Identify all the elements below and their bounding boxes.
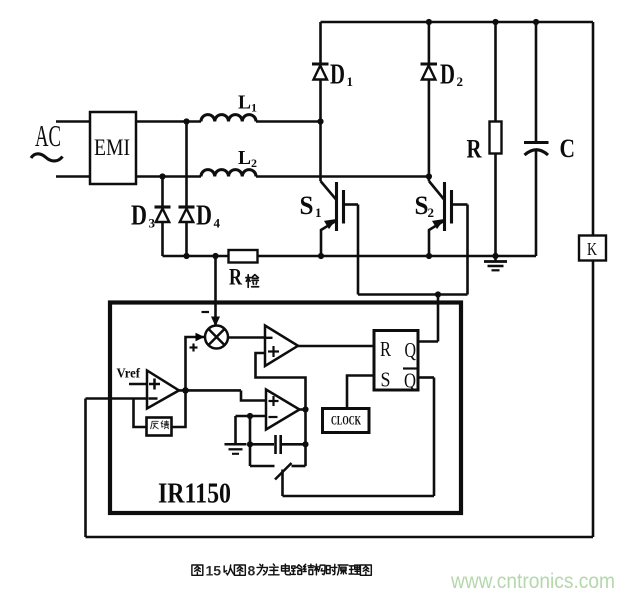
wire feedback bottom run xyxy=(86,536,594,539)
resistor R (output load) xyxy=(467,22,502,256)
svg-text:3: 3 xyxy=(149,216,156,231)
multiplier xyxy=(205,326,228,349)
svg-text:IR1150: IR1150 xyxy=(158,478,231,510)
wire Q output xyxy=(418,340,438,343)
wire error amp output run xyxy=(179,389,241,392)
svg-text:15: 15 xyxy=(206,563,222,579)
diode D2 xyxy=(421,22,464,181)
svg-text:Q: Q xyxy=(404,369,416,393)
svg-text:D: D xyxy=(440,60,455,91)
node cap left xyxy=(247,441,253,447)
node rail ground xyxy=(492,253,498,259)
node rail D4 xyxy=(183,253,189,259)
svg-text:1: 1 xyxy=(315,205,322,220)
node EMI top tap xyxy=(183,118,189,124)
svg-text:L: L xyxy=(238,147,251,169)
transistor S1 (IGBT) xyxy=(300,181,359,256)
svg-text:2: 2 xyxy=(457,74,464,89)
node rail C xyxy=(533,19,539,25)
node comparator B output xyxy=(302,406,308,412)
wire multiplier output xyxy=(228,336,272,339)
svg-text:C: C xyxy=(560,134,576,163)
svg-text:Vref: Vref xyxy=(117,366,141,381)
wire comparator B plus input xyxy=(241,391,266,401)
flip-flop RS xyxy=(374,331,418,393)
svg-text:2: 2 xyxy=(251,156,257,170)
AC source label xyxy=(31,118,63,161)
node L1/D1 junction xyxy=(317,118,323,124)
op-amp error amplifier xyxy=(147,371,179,409)
caption xyxy=(192,563,371,579)
svg-text:1: 1 xyxy=(251,101,257,115)
wire comparator A output to R xyxy=(298,345,374,348)
arrow into multiplier left xyxy=(196,333,205,341)
svg-text:2: 2 xyxy=(428,205,435,220)
feedback block fankui xyxy=(147,418,172,436)
node minus net xyxy=(247,413,253,419)
svg-text:www.cntronics.com: www.cntronics.com xyxy=(450,570,615,593)
wire comparator B minus input xyxy=(236,415,267,418)
diode D3 xyxy=(131,177,171,257)
svg-text:D: D xyxy=(131,201,147,232)
relay K xyxy=(579,22,606,261)
op-amp comparator B xyxy=(266,390,300,430)
wire Qbar output xyxy=(418,376,434,379)
clock block xyxy=(323,409,370,433)
node cap right xyxy=(302,441,308,447)
wire ramp left branch xyxy=(249,416,252,466)
wire top rail xyxy=(321,21,594,24)
transistor S2 (IGBT) xyxy=(415,181,468,256)
capacitor C (output) xyxy=(524,22,575,256)
ground (ramp) xyxy=(225,416,247,454)
inductor L1 xyxy=(201,92,257,122)
svg-text:K: K xyxy=(587,239,597,259)
node rail sense tap xyxy=(212,253,218,259)
diode D1 xyxy=(312,22,353,181)
discharge switch xyxy=(250,463,306,480)
arrow into multiplier top xyxy=(211,317,220,327)
minus sign at multiplier top xyxy=(202,311,210,313)
svg-text:R: R xyxy=(380,337,391,361)
wire EMI top output to L1 xyxy=(136,120,201,123)
node error amp output xyxy=(182,387,189,394)
wire emitter rail xyxy=(163,255,537,258)
svg-text:1: 1 xyxy=(347,74,354,89)
svg-text:L: L xyxy=(238,92,251,114)
resistor R_jian (current sense) xyxy=(229,250,259,290)
wire feedback left rise xyxy=(84,399,87,538)
Vref label xyxy=(117,366,148,385)
node rail R xyxy=(492,19,498,25)
capacitor ramp xyxy=(250,435,306,454)
ground (output) xyxy=(484,256,507,270)
wire gate link xyxy=(358,293,468,296)
wire S2 gate drop xyxy=(466,205,469,295)
svg-text:EMI: EMI xyxy=(94,135,130,160)
svg-text:8: 8 xyxy=(248,563,256,579)
wire EMI bottom output to L2 xyxy=(136,175,201,178)
wire feedback to fankui box xyxy=(134,399,147,428)
plus sign at multiplier left xyxy=(190,344,198,352)
wire S1 gate drop xyxy=(357,205,360,295)
wire comparator A plus input xyxy=(256,353,306,410)
svg-text:4: 4 xyxy=(214,216,221,231)
wire switch control xyxy=(281,470,284,497)
wire comparator B output stub xyxy=(300,408,306,411)
node rail S1 emitter xyxy=(318,253,324,259)
inductor L2 xyxy=(201,147,257,177)
svg-text:S: S xyxy=(415,191,429,220)
IC IR1150 block xyxy=(110,303,461,514)
wire AC bottom lead xyxy=(56,175,90,178)
wire AC top lead xyxy=(56,120,90,123)
wire ramp right branch xyxy=(304,410,307,467)
wire feedback right drop xyxy=(592,261,595,538)
svg-text:CLOCK: CLOCK xyxy=(331,414,361,428)
svg-text:S: S xyxy=(381,368,391,392)
node gate link xyxy=(435,291,441,297)
wire multiplier left input xyxy=(186,337,206,390)
svg-text:R: R xyxy=(467,135,482,164)
wire gate drive from Q xyxy=(437,295,440,342)
svg-text:S: S xyxy=(300,191,314,220)
wire sense drop to multiplier xyxy=(214,256,217,326)
wire fankui to output node xyxy=(172,390,186,427)
svg-text:Q: Q xyxy=(405,338,417,362)
node L2/S2 junction xyxy=(426,173,432,179)
svg-text:D: D xyxy=(330,60,345,91)
wire Qbar drop xyxy=(433,378,436,497)
wire L1 to D1 column xyxy=(256,120,321,123)
diode D4 xyxy=(179,122,221,257)
svg-text:R: R xyxy=(229,265,242,290)
node D3 tap xyxy=(159,173,165,179)
EMI filter block xyxy=(90,112,136,184)
node rail D2 xyxy=(426,19,432,25)
svg-text:AC: AC xyxy=(35,118,61,153)
svg-text:D: D xyxy=(196,201,212,232)
wire S input xyxy=(347,376,374,409)
wire L2 to S2 column xyxy=(256,175,429,178)
op-amp comparator A xyxy=(264,326,298,367)
wire error amp minus input xyxy=(86,397,148,400)
node rail S2 emitter xyxy=(426,253,432,259)
wire Qbar bottom run xyxy=(283,495,435,498)
